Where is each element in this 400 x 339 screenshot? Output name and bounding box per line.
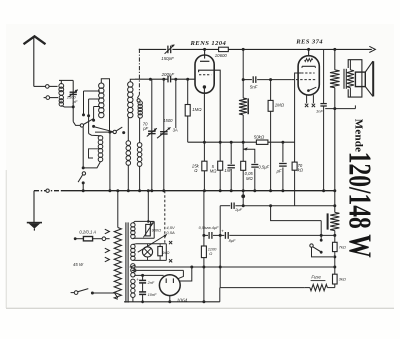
node rail235 x220: [219, 234, 222, 237]
antenna coil L1 upper winding: [59, 84, 64, 89]
wire rail bottom: [124, 301, 220, 303]
tube U2 top lead: [308, 49, 310, 55]
wire 1100 chain: [203, 191, 205, 246]
node bus x323.6: [322, 189, 325, 192]
switch S1 wave band: [80, 124, 83, 127]
capacitor 2uF: [231, 203, 233, 209]
node rail267 end: [333, 266, 336, 269]
svg-text:45 W: 45 W: [73, 262, 84, 267]
node tube2 top: [307, 48, 310, 51]
wire L7 bottom to bus: [139, 167, 141, 191]
wire L1 bottom: [61, 106, 73, 107]
svg-text:2nF: 2nF: [147, 280, 155, 285]
node bottom rail 1100: [202, 300, 205, 303]
speaker driver: [355, 72, 365, 87]
node grid leak top: [186, 78, 189, 81]
resistor 1100 ohm: [201, 246, 206, 258]
node grid rail d2: [162, 78, 165, 81]
svg-text:MΩ: MΩ: [210, 168, 217, 173]
node rail235 1100: [202, 234, 205, 237]
node bus x83.2: [82, 189, 85, 192]
node S2 throw: [122, 131, 125, 134]
wire switch rail: [95, 131, 113, 133]
svg-text:1MΩ: 1MΩ: [275, 102, 285, 107]
svg-text:0,5bzw.4μF: 0,5bzw.4μF: [199, 225, 219, 230]
trimmer capacitor 1500pF padder: [160, 131, 168, 133]
heater connection X marks U2: [305, 104, 308, 107]
wire L1 top to secondary: [59, 79, 73, 81]
tube U1 top cap electrode: [200, 60, 209, 62]
node tap t2: [87, 114, 90, 117]
wire L3 bottom: [127, 118, 129, 141]
node bus x151.8: [150, 189, 153, 192]
svg-text:Fuse: Fuse: [311, 275, 321, 280]
svg-text:3A: 3A: [173, 127, 178, 132]
svg-text:5nF: 5nF: [250, 85, 258, 90]
wire x220 vertical: [219, 206, 221, 288]
capacitor 0.5uF: [251, 164, 258, 166]
node tap t3: [92, 119, 95, 122]
node fat junction below bus: [241, 194, 245, 198]
svg-text:+: +: [136, 277, 139, 282]
svg-text:Ω: Ω: [209, 251, 212, 256]
wire L5 mid tap: [89, 149, 101, 158]
wire rail 220: [271, 206, 322, 221]
tap contacts mains: [105, 229, 110, 234]
wire bus to autotransformer: [117, 191, 119, 228]
tube U2 grid2 dashed: [301, 72, 314, 74]
node OT chain bus: [333, 189, 336, 192]
winding WC heater: [131, 264, 135, 268]
mains switch S4: [71, 292, 75, 294]
wire bus to ground: [33, 191, 35, 223]
node tap t1: [82, 113, 85, 116]
node 7k switch join: [333, 255, 336, 258]
coil L4 padder coil: [138, 101, 142, 105]
svg-text:50kΩ: 50kΩ: [254, 135, 265, 140]
wire tube2 grid to 70k: [295, 73, 302, 162]
capacitor 4uF: [279, 163, 287, 165]
switch S3 mains pole2: [310, 244, 313, 247]
wire grid rail: [135, 78, 168, 80]
contact circle on bus: [46, 189, 49, 192]
wire rail 2uF: [220, 205, 230, 207]
node bus x231.2: [230, 189, 233, 192]
wire secondary vertical: [72, 80, 74, 121]
wire OT primary top: [334, 49, 336, 70]
antenna coil L1 lower winding: [59, 95, 63, 99]
wire U1 anode out: [211, 70, 220, 142]
node tube1 top cap: [203, 48, 206, 51]
resistor 70k: [292, 162, 297, 170]
wire chassis bus: [34, 190, 62, 192]
core bar RF choke: [247, 98, 249, 114]
svg-text:3kΩ: 3kΩ: [339, 277, 346, 282]
node bus x117.8: [116, 189, 119, 192]
resistor 0.05M: [241, 161, 246, 170]
node rail267 branch: [190, 266, 193, 269]
contact circle gang to L4: [137, 99, 140, 102]
wire 5nF line: [243, 79, 252, 81]
wire trimmer T1 vertical: [151, 79, 153, 191]
svg-text:120/148 W: 120/148 W: [342, 152, 377, 258]
svg-text:8μF: 8μF: [229, 238, 236, 243]
winding WA dial: [131, 223, 135, 227]
svg-text:0,5μF: 0,5μF: [258, 165, 269, 170]
autotransformer mains winding: [114, 228, 121, 300]
antenna: [24, 36, 46, 44]
resistor 1M AF: [268, 100, 273, 111]
rectifier anode ticks: [165, 278, 167, 283]
node plate feed: [242, 48, 245, 51]
node bus x128.3: [127, 189, 130, 192]
node bus x163.8: [162, 189, 165, 192]
svg-text:Mende: Mende: [353, 119, 365, 152]
heater X b: [169, 259, 172, 262]
svg-text:1nF: 1nF: [316, 109, 323, 114]
winding WB pilot: [131, 244, 135, 248]
wire avc arrow branch: [242, 142, 244, 161]
svg-text:kΩ: kΩ: [298, 167, 304, 172]
wire stub third gang: [175, 79, 177, 128]
wire S1 down: [82, 127, 84, 168]
capacitor 5nF coupling: [252, 76, 254, 83]
wire screen chain: [219, 142, 221, 161]
variable resistor 960 ohm: [146, 224, 151, 236]
node 1M top: [269, 78, 272, 81]
node coilA bottom join: [82, 166, 85, 169]
svg-text:0,2/0,1 A: 0,2/0,1 A: [79, 229, 96, 234]
tube U1 top cap lead: [204, 49, 206, 58]
svg-text:+: +: [221, 229, 224, 234]
tube U2 RES374 envelope: [298, 56, 319, 95]
inductor RF choke: [239, 98, 247, 115]
antenna terminal A1: [46, 85, 50, 89]
coil L3 RF tuning coil 2: [128, 82, 133, 87]
node 5nF tap: [242, 78, 245, 81]
node rail cathode: [203, 141, 206, 144]
capacitor 1nF: [228, 164, 235, 166]
node output transformer top: [333, 48, 336, 51]
capacitor 1nF tone: [320, 103, 326, 105]
ground: [27, 222, 42, 224]
transformer core: [125, 222, 127, 302]
svg-text:94Ω: 94Ω: [162, 250, 169, 255]
arrow top rail end: [369, 46, 375, 52]
wire top rail to 1nF: [323, 49, 325, 103]
wire dashed heater return: [164, 191, 166, 244]
resistor 5M: [218, 161, 223, 170]
wire L5 bottom lead: [83, 162, 100, 168]
wire WD bottom: [132, 298, 134, 302]
speaker cone: [365, 61, 373, 72]
wire heater rail inner: [134, 269, 183, 271]
wire detector rail: [204, 141, 256, 143]
node choke rail235: [333, 234, 336, 237]
wire L5 top lead: [89, 134, 101, 136]
antenna terminal A2: [44, 97, 46, 99]
wire L4 bottom stub: [139, 117, 142, 119]
resistor 50k: [256, 140, 268, 144]
svg-text:RENS 1204: RENS 1204: [190, 40, 227, 47]
pilot lamp: [142, 247, 152, 257]
node 2uF rail left: [242, 204, 245, 207]
trimmer capacitor 1500pF antenna: [70, 91, 77, 93]
node bus x109.9: [108, 189, 111, 192]
wire filter cap feed: [134, 274, 163, 276]
trimmer capacitor 150pF: [167, 46, 169, 54]
node bus x270.6: [269, 189, 272, 192]
tube U1 RENS1204 envelope: [195, 55, 214, 93]
tube U2 anode: [302, 65, 315, 67]
wire S5 to bus: [82, 183, 84, 191]
node switch rail join: [108, 131, 111, 134]
output transformer secondary winding: [347, 70, 354, 88]
wire L6 bottom to bus: [127, 166, 129, 191]
svg-text:200pF: 200pF: [161, 72, 175, 77]
wire rail 235: [204, 234, 208, 236]
tube U2 grid1 dashed: [292, 79, 317, 81]
wire stub rail235: [320, 221, 322, 241]
node rail anode: [219, 141, 222, 144]
inductor hum choke: [330, 212, 339, 230]
svg-text:1MΩ: 1MΩ: [192, 107, 202, 112]
rectifier tube 1064: [159, 275, 180, 296]
node 2uF rail mid: [269, 204, 272, 207]
wire heater rail outer: [134, 266, 334, 268]
svg-text:960Ω: 960Ω: [152, 228, 161, 233]
capacitor 2nF electrolytic: [142, 275, 144, 280]
resistor 3k: [333, 274, 338, 284]
node bus x254.8: [253, 189, 256, 192]
wire grid leak: [187, 79, 189, 104]
svg-text:1064: 1064: [177, 298, 188, 304]
node rail267 x220: [219, 266, 222, 269]
capacitor 0.5uF electrolytic a: [208, 232, 210, 239]
svg-text:10600: 10600: [215, 53, 228, 58]
node field tap: [333, 107, 336, 110]
node tap t4: [92, 125, 95, 128]
tube U2 filament leads: [306, 95, 308, 103]
tube U2 filament squiggle: [305, 59, 313, 62]
node OT chain 2uF rail: [333, 204, 336, 207]
lamp circuit 1 loop: [133, 221, 148, 223]
wire L3 top to grid rail: [130, 79, 135, 82]
svg-text:pF: pF: [72, 99, 78, 104]
svg-text:pF: pF: [142, 126, 148, 131]
coil L7 lower bank C: [137, 143, 142, 148]
wire L2 top return: [101, 79, 109, 132]
node bus x148.3: [147, 189, 150, 192]
svg-text:10nF: 10nF: [148, 292, 157, 297]
wire 1M chain: [270, 80, 272, 101]
coil L5 lower bank A: [98, 136, 103, 141]
node bus x204.4: [203, 189, 206, 192]
output transformer core: [343, 69, 345, 89]
switch S2 wave band: [113, 130, 116, 133]
node bus x282.9: [281, 189, 284, 192]
winding WD rectifier: [131, 279, 135, 283]
wire avc branch: [243, 149, 255, 163]
wire to band switch S1: [73, 122, 80, 126]
node antenna coil junction: [72, 105, 75, 108]
wire rect heater branch outer: [180, 267, 192, 281]
tube U2 cathode: [308, 87, 317, 91]
svg-text:0,5A: 0,5A: [166, 230, 175, 235]
trimmer capacitor 70pF: [148, 130, 156, 132]
coil L2 tap wires: [84, 90, 100, 92]
resistor 7k: [333, 242, 338, 251]
node bus x243.2: [242, 189, 245, 192]
wire tuning gang link dash-dot: [138, 49, 140, 95]
node rail267 1100: [202, 266, 205, 269]
tube U1 cathode: [203, 85, 206, 88]
resistor 1M grid leak: [185, 105, 190, 117]
wire trimmer T2 vertical: [163, 79, 165, 191]
variable resistor 94 ohm: [158, 247, 163, 256]
wire rectifier cathode down: [169, 296, 171, 302]
node filter cap tap: [141, 274, 144, 277]
switch S5 wave band: [82, 172, 85, 175]
output transformer primary winding: [330, 70, 340, 88]
node rail avc: [281, 141, 284, 144]
node bus x220.2: [219, 189, 222, 192]
wire 1nF chain: [230, 142, 232, 164]
wire rect heater branch inner: [178, 270, 183, 278]
wire plate feed vertical: [242, 49, 244, 98]
wire cathode chain: [203, 142, 205, 161]
coil L2 RF tuning coil 1: [99, 83, 104, 88]
wire 4uF chain: [282, 142, 284, 162]
lamp circuit 2 loop: [133, 243, 166, 246]
svg-text:2μF: 2μF: [234, 207, 242, 212]
svg-text:150pF: 150pF: [161, 56, 174, 61]
wire speaker frame: [349, 60, 351, 70]
capacitor 200pF: [167, 76, 169, 82]
resistor 10600 ohm: [219, 47, 229, 51]
wire bus to lamp1: [147, 191, 149, 222]
wire field coil tap: [325, 108, 355, 110]
svg-text:μF: μF: [276, 169, 282, 174]
node grid rail d3: [174, 78, 177, 81]
wire L7 top lead: [139, 118, 141, 143]
node rail choke: [242, 141, 245, 144]
capacitor 4uF electrolytic b: [224, 232, 226, 239]
core bar hum choke: [327, 213, 329, 229]
wire anode top rail: [139, 48, 166, 50]
wire t4 to switch S2: [94, 127, 113, 132]
node grid rail d1: [149, 78, 152, 81]
wire rail 287: [220, 287, 305, 289]
svg-text:1500: 1500: [163, 118, 173, 123]
node bus x139.6: [138, 189, 141, 192]
wire U1 cathode down: [203, 87, 205, 142]
wire OT primary bottom: [334, 88, 336, 213]
heater X a: [169, 241, 172, 244]
tube U1 grid: [199, 74, 211, 76]
wire switch rail to bus: [109, 132, 111, 191]
node rail 1nF: [230, 141, 233, 144]
svg-text:MΩ: MΩ: [246, 176, 253, 181]
coil L6 lower bank B: [126, 141, 131, 146]
capacitor 10nF electrolytic: [142, 283, 144, 292]
wire antenna down-lead: [33, 38, 35, 87]
svg-text:RES 374: RES 374: [295, 38, 323, 45]
tube U1 anode: [199, 70, 211, 72]
resistor 25k cathode: [202, 161, 207, 171]
